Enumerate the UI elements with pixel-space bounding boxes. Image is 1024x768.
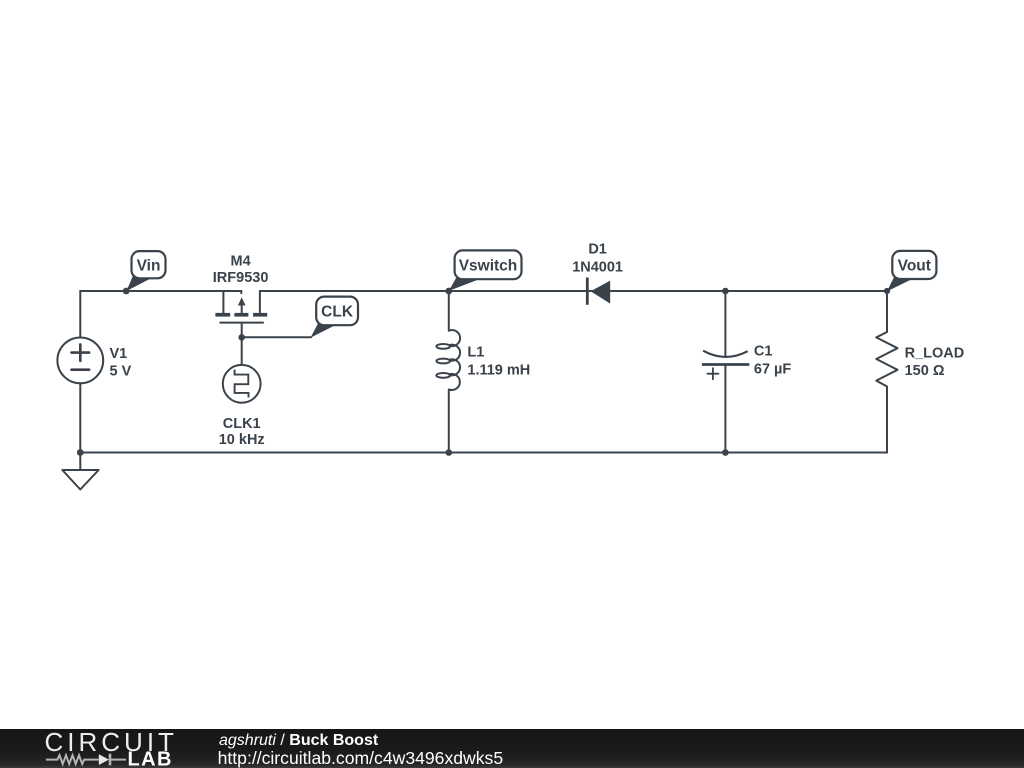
flag CLK (311, 297, 359, 338)
svg-text:1N4001: 1N4001 (572, 260, 623, 276)
M4 gate bar (220, 322, 263, 324)
wire gate to CLK flag (242, 336, 311, 338)
node gate junction (238, 334, 245, 341)
transistor M4 PMOS IRF9530 (213, 254, 269, 323)
voltage source V1 (57, 338, 131, 384)
wire capacitor bottom lead (724, 365, 726, 453)
wire inductor top lead (448, 291, 450, 331)
M4 channel contact bars (215, 313, 230, 317)
svg-text:150 Ω: 150 Ω (905, 363, 945, 379)
wire bottom ground net (80, 452, 887, 454)
svg-text:D1: D1 (588, 242, 607, 258)
node ground inductor junction (446, 449, 453, 456)
svg-text:http://circuitlab.com/c4w3496x: http://circuitlab.com/c4w3496xdwks5 (218, 748, 504, 768)
wire capacitor top lead (724, 291, 726, 356)
svg-text:L1: L1 (467, 345, 484, 361)
clock source CLK1 (219, 365, 265, 448)
svg-text:Vswitch: Vswitch (459, 258, 518, 275)
svg-text:C1: C1 (754, 344, 773, 360)
flag Vswitch (449, 250, 522, 291)
M4 source lead (222, 291, 224, 313)
svg-text:10 kHz: 10 kHz (219, 432, 265, 448)
svg-text:CLK1: CLK1 (223, 416, 261, 432)
svg-text:agshruti / Buck Boost: agshruti / Buck Boost (219, 732, 379, 749)
svg-text:1.119 mH: 1.119 mH (467, 363, 530, 379)
node Vout corner junction (884, 288, 890, 294)
svg-text:IRF9530: IRF9530 (213, 270, 269, 286)
wire top net Vout (diode to resistor) (588, 290, 887, 292)
node junction dots (77, 288, 890, 456)
flag Vout (887, 251, 936, 291)
wire inductor bottom lead (448, 390, 450, 453)
M4 drain lead (259, 291, 261, 313)
svg-text:CLK: CLK (321, 304, 354, 321)
footer bar (0, 727, 1024, 768)
node ground V1 junction (77, 449, 84, 456)
ground (62, 470, 98, 490)
M4 body arrow head (238, 297, 246, 305)
svg-text:LAB: LAB (128, 748, 173, 768)
node Vin junction (123, 288, 130, 295)
svg-text:Vout: Vout (898, 258, 931, 275)
wire ground stub (79, 453, 81, 471)
wire gate lead (241, 323, 243, 338)
diode D1 1N4001 (572, 242, 623, 305)
wire resistor bottom lead (886, 387, 888, 453)
wire gate to CLK1 source (241, 337, 243, 365)
wire top net Vin (V1 to MOSFET source) (80, 291, 241, 338)
logo schematic underline with resistor and diode (46, 754, 126, 766)
svg-text:67 µF: 67 µF (754, 362, 792, 378)
wire top net Vswitch (MOSFET drain to diode) (260, 290, 586, 292)
svg-text:Vin: Vin (137, 258, 161, 275)
wire resistor top lead (886, 291, 888, 332)
svg-text:5 V: 5 V (110, 364, 132, 380)
inductor L1 (436, 330, 530, 390)
capacitor C1 (702, 344, 792, 380)
M4 body arrow shaft (241, 304, 243, 313)
svg-text:R_LOAD: R_LOAD (905, 346, 965, 362)
node Vswitch junction (445, 288, 452, 295)
svg-text:M4: M4 (231, 254, 251, 270)
wire V1 bottom lead (79, 383, 81, 452)
resistor R_LOAD (876, 332, 964, 387)
flag Vin (126, 251, 165, 291)
node ground cap junction (722, 449, 729, 456)
svg-text:V1: V1 (110, 346, 128, 362)
node Vout cap junction (722, 288, 729, 295)
